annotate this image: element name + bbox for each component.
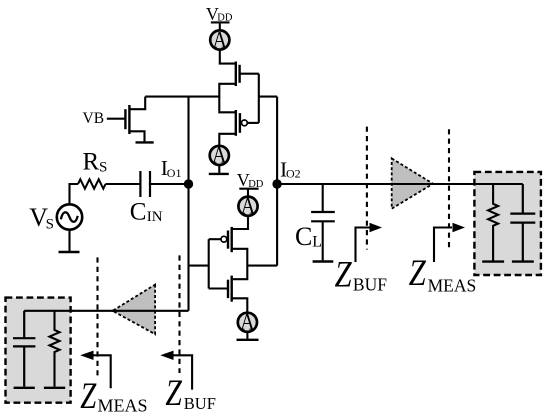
node CL label bbox=[295, 222, 322, 251]
dashed line ZMEAS right bbox=[448, 129, 450, 249]
node ZMEAS right label bbox=[409, 253, 476, 295]
ground bar right box resistor bbox=[482, 260, 504, 262]
node VDD supply label top bbox=[206, 4, 233, 24]
node RS label bbox=[83, 148, 108, 175]
wire M1 gate lead bbox=[240, 73, 259, 75]
node ZBUF left label bbox=[165, 373, 216, 414]
wire VB gate lead bbox=[107, 118, 126, 120]
wire A3 to M4 source bbox=[232, 216, 248, 229]
transistor M3 gate bar bbox=[124, 109, 126, 129]
wire VS to ground bbox=[68, 231, 70, 252]
wire main row CIN to IO1 bbox=[150, 183, 189, 185]
ground bar under CL bbox=[313, 260, 334, 262]
svg-text:VB: VB bbox=[83, 110, 105, 127]
svg-text:A: A bbox=[212, 143, 227, 168]
wire M4 drain down vertical D bbox=[232, 249, 248, 279]
wire M4 gate lead bbox=[209, 238, 221, 240]
ammeter A2 bbox=[210, 146, 229, 165]
wire M3 source to ground bbox=[129, 131, 144, 141]
resistor RS zigzag bbox=[78, 179, 106, 188]
svg-text:BUF: BUF bbox=[184, 394, 216, 413]
node ZMEAS left label bbox=[80, 376, 147, 416]
wire M5 source to ammeter A4 bbox=[232, 298, 248, 312]
transistor M3 channel bar bbox=[128, 105, 130, 134]
ground bar under A4 bbox=[237, 339, 259, 341]
wire inside right box bbox=[474, 183, 522, 185]
ground bar right box capacitor bbox=[512, 260, 534, 262]
node CIN label bbox=[130, 198, 163, 225]
ground bar left box capacitor bbox=[14, 387, 35, 389]
arrow ZBUF right bbox=[356, 228, 372, 263]
svg-text:A: A bbox=[241, 194, 256, 219]
svg-text:A: A bbox=[240, 310, 255, 335]
wire M3 drain to VB rail bbox=[129, 97, 145, 110]
resistor left box zigzag bbox=[50, 311, 60, 387]
wire through left triangle bbox=[112, 310, 156, 312]
transistor M2 channel bar bbox=[235, 110, 237, 136]
svg-text:Z: Z bbox=[409, 253, 426, 294]
svg-text:MEAS: MEAS bbox=[98, 396, 148, 416]
transistor M4 channel bar bbox=[230, 227, 232, 252]
svg-text:S: S bbox=[46, 216, 54, 232]
svg-text:C: C bbox=[130, 198, 147, 225]
node IO2 junction dot bbox=[272, 179, 281, 188]
transistor M5 channel bar bbox=[230, 276, 232, 302]
wire VB rail to M1/M2 junction bbox=[145, 96, 219, 98]
wire RS to CIN bbox=[106, 183, 141, 185]
ammeter A4 bbox=[238, 313, 257, 332]
wire output stub to IO2 bbox=[247, 265, 277, 267]
arrow ZMEAS right bbox=[434, 228, 452, 263]
power rail VDD bar top bbox=[211, 21, 230, 23]
transistor M4 gate bar bbox=[227, 231, 229, 249]
wire through right triangle bbox=[391, 183, 435, 185]
svg-text:A: A bbox=[213, 27, 228, 52]
transistor M4 pmos bubble bbox=[221, 236, 227, 242]
wire VDD2 to ammeter A3 bbox=[247, 189, 249, 197]
ground bar under A2 bbox=[209, 173, 229, 175]
wire gate vertical E bbox=[208, 239, 210, 288]
svg-text:O1: O1 bbox=[167, 166, 182, 180]
wire gate vertical C bbox=[258, 74, 260, 123]
transistor M2 pmos bubble bbox=[242, 120, 248, 126]
capacitor right box plates bbox=[510, 184, 535, 262]
node VS label bbox=[29, 203, 54, 232]
transistor M1 channel bar bbox=[235, 62, 237, 87]
wire A4 to ground bbox=[246, 332, 248, 339]
resistor right box zigzag bbox=[488, 184, 498, 262]
transistor M2 gate bar bbox=[239, 113, 241, 133]
wire M1 source lead and down to M2 bbox=[219, 84, 236, 113]
wire M5 gate lead bbox=[209, 287, 228, 289]
node ZBUF right label bbox=[335, 255, 388, 296]
node IO2 label bbox=[280, 157, 301, 181]
wire VDD bar to ammeter A1 bbox=[219, 22, 221, 30]
capacitor CL plates bbox=[311, 212, 335, 221]
node IO1 junction dot bbox=[184, 179, 193, 188]
arrow ZMEAS left bbox=[93, 355, 111, 388]
wire lower row bbox=[24, 310, 188, 312]
svg-text:Z: Z bbox=[80, 376, 96, 416]
svg-text:MEAS: MEAS bbox=[428, 276, 477, 296]
power rail VDD bar stage2 bbox=[239, 188, 258, 190]
ammeter A3 bbox=[238, 197, 257, 216]
ammeter A1 bbox=[210, 30, 229, 49]
ground bar left box resistor bbox=[44, 387, 65, 389]
buffer triangle left bbox=[113, 285, 156, 335]
transistor M5 gate bar bbox=[227, 280, 229, 298]
wire VS to main row bbox=[70, 184, 79, 204]
node IO1 vertical wire bbox=[187, 97, 189, 311]
dashed line ZMEAS left bbox=[96, 257, 98, 378]
wire CL to ground bbox=[322, 221, 324, 260]
node IO2 vertical wire bbox=[276, 97, 278, 266]
source VS circle bbox=[57, 204, 82, 229]
sine symbol inside VS bbox=[61, 212, 78, 222]
node VDD supply label stage2 bbox=[237, 170, 264, 190]
capacitor CL stub bbox=[322, 184, 324, 212]
arrow ZBUF left bbox=[173, 355, 192, 389]
ground bar under M3 bbox=[136, 141, 154, 143]
box load left dashed bbox=[6, 298, 71, 403]
wire gates to IO2 vertical bbox=[259, 96, 277, 98]
wire A2 to ground bbox=[218, 165, 220, 173]
wire M2 gate lead bbox=[247, 122, 258, 124]
wire inside left box bbox=[24, 310, 72, 312]
dashed line ZBUF right bbox=[366, 127, 368, 250]
dashed line ZBUF left bbox=[178, 255, 180, 373]
svg-text:L: L bbox=[312, 234, 322, 251]
buffer triangle right bbox=[392, 158, 433, 208]
wire input stub IO1 to gates bbox=[189, 265, 209, 267]
svg-text:O2: O2 bbox=[286, 166, 301, 180]
svg-text:R: R bbox=[83, 148, 100, 175]
svg-text:C: C bbox=[295, 222, 312, 251]
svg-text:Z: Z bbox=[335, 255, 352, 296]
capacitor CIN plates bbox=[140, 171, 150, 197]
svg-text:BUF: BUF bbox=[353, 275, 387, 295]
wire main row IO2 to right box bbox=[277, 183, 523, 185]
capacitor left box bbox=[13, 311, 35, 387]
svg-text:S: S bbox=[99, 160, 107, 176]
node IO1 label bbox=[161, 156, 182, 180]
transistor M1 gate bar bbox=[238, 65, 240, 83]
wire M2 source to ammeter A2 bbox=[219, 134, 236, 146]
svg-text:IN: IN bbox=[147, 209, 163, 225]
wire A1 to M1 drain bbox=[220, 50, 236, 64]
svg-text:Z: Z bbox=[165, 373, 182, 414]
box load right dashed bbox=[474, 172, 541, 275]
ground bar under VS bbox=[59, 251, 80, 253]
